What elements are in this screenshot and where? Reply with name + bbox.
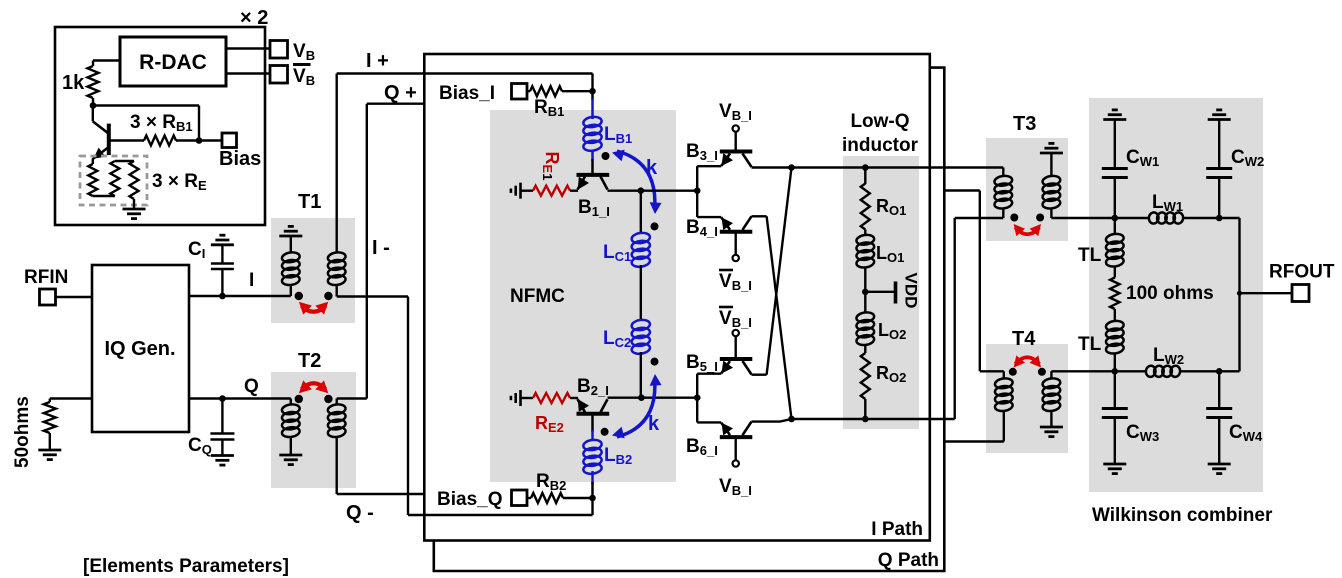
LC2 phase dot [651,358,659,366]
transistor Q1 [90,106,109,165]
pad RFIN [40,289,56,305]
T1 primary ground [279,235,302,238]
CW4 ground [1218,418,1220,465]
ground below RE [123,208,146,211]
LB2 phase dot [601,428,609,436]
VDD tap [865,291,894,293]
wire LB2 to Bias_Q node [591,471,594,484]
transistor B3_I [717,132,753,170]
svg-text:T4: T4 [1012,328,1036,350]
resistor RB2 [531,493,563,503]
T4 coupling arrow [1009,355,1045,371]
wire node down and to I- riser [591,498,593,515]
svg-text:RFIN: RFIN [24,267,68,288]
R-DAC block U1 [120,37,226,86]
Wilkinson combiner shaded box [1089,98,1263,492]
wire LO2 to RO2 [864,345,866,354]
upper TL inductor [1114,218,1116,235]
svg-text:NFMC: NFMC [510,286,565,307]
pad Bias [222,133,237,148]
capacitor CW4 [1206,407,1232,410]
T4 secondary coil [1050,371,1052,379]
inductor LB2 [583,439,603,451]
T4 phase dot left [1009,368,1017,376]
svg-text:CQ: CQ [188,435,212,457]
svg-text:B6_I: B6_I [686,436,718,458]
inductor LW2 [1145,365,1156,377]
wire 100ohms to TL lower [1114,309,1116,322]
wire 50ohms to ground [49,433,51,450]
svg-text:CI: CI [188,239,205,261]
svg-text:T2: T2 [298,350,321,372]
B6 emitter wire [697,421,721,423]
T4 primary bottom wire to Qpath box [1003,411,1005,442]
label VBbar_I below B4 [719,270,752,293]
pad VBbar [270,66,288,84]
svg-text:k: k [646,157,658,179]
resistor RE c [130,161,139,199]
T2 secondary bottom to Q- wire [336,437,338,495]
wire CQ to ground [221,440,223,456]
wire 1k to R-DAC [93,59,120,61]
LC1 phase dot [651,222,659,230]
Wilkinson top wire [1115,217,1149,219]
B4 collector wire to cross [752,215,767,217]
T4 secondary ground [1050,411,1052,428]
node cascode emitters upper [694,187,701,194]
wire LC1 stem [640,191,642,234]
wire pad to RB2 [527,497,531,499]
wire Low-Q top stem [864,168,866,185]
node Low-Q bottom [862,416,869,423]
inductor LC1 [631,232,651,244]
capacitor CW1 [1102,167,1128,170]
inductor LC2 [631,319,651,331]
T3 phase dot left [1010,214,1018,222]
wire RO1 to LO1 [864,230,866,236]
svg-text:VB_I: VB_I [719,476,752,498]
svg-text:Q -: Q - [346,502,374,524]
Low-Q inductor shaded box [843,156,919,429]
node Low-Q top [862,164,869,171]
wire B1 collector to cascode [608,189,698,191]
inductor LB1 [583,116,603,128]
transistor B4_I [717,214,753,255]
resistor RB1 [530,86,562,96]
top output rail [752,166,1004,168]
node B2 collector LC2 [638,394,645,401]
resistor RE1 [533,186,570,196]
pad RFOUT [1292,285,1309,302]
wire LB1 to B1 base [591,150,594,161]
svg-text:RB1: RB1 [534,97,564,119]
resistor 1k [88,66,99,98]
resistor RO1 [861,184,870,230]
T1 primary coil [281,251,300,263]
CW2 ground [1208,118,1231,121]
node B1 collector LC1 [638,187,645,194]
svg-text:50ohms: 50ohms [12,396,33,468]
CW4 stem [1218,371,1220,408]
resistor RO2 [861,353,870,399]
T3 transformer shaded box [986,138,1068,241]
right riser to RFOUT [1238,218,1240,371]
wire 50ohms branch [50,397,92,399]
node CW1 [1112,215,1119,222]
Wilkinson bottom wire [1115,370,1146,372]
svg-text:I +: I + [366,50,389,72]
wire node to LB1 [591,91,594,100]
wire RFIN to IQ Gen [56,296,93,298]
svg-text:B3_I: B3_I [686,141,718,163]
wire CI stem [221,269,223,296]
resistor 100ohms [1110,278,1119,310]
T2 phase dot right [324,395,332,403]
coupling arrow k upper [610,147,661,215]
svg-text:1k: 1k [62,72,85,94]
node Q [219,395,226,402]
svg-text:3 × RB1: 3 × RB1 [130,112,193,134]
node Bias_Q LB2 [589,495,596,502]
T3 primary coil [1002,168,1004,177]
transistor B2_I [573,396,609,414]
pad Bias_Q [512,490,528,506]
T1 secondary coil [327,251,346,263]
T2 secondary coil [327,403,346,415]
B5 emitter wire [697,373,721,375]
wire I+ to box [337,72,593,74]
capacitor CQ [210,432,234,435]
resistor RE2 [533,393,570,403]
B3 emitter wire [697,165,721,167]
node cascode emitters lower [694,394,701,401]
svg-text:TL: TL [1078,334,1102,355]
Q Path box [434,68,945,571]
svg-text:R-DAC: R-DAC [139,51,207,74]
svg-text:TL: TL [1078,245,1102,266]
svg-text:Wilkinson combiner: Wilkinson combiner [1092,505,1273,526]
ground below CQ [211,454,234,457]
wire RB2 to node [563,497,593,499]
wire LC1 to LC2 [640,265,642,321]
wire TL to 100ohms [1114,266,1116,278]
capacitor CW2 [1206,167,1232,170]
T2 transformer shaded box [271,372,356,488]
wire to RFOUT pad [1240,292,1293,294]
wire I- riser down [407,297,409,516]
transistor B5_I [717,337,753,378]
bottom output rail [792,418,955,420]
node CW3 [1112,368,1119,375]
resistor RE a [88,164,97,196]
svg-text:inductor: inductor [842,135,919,156]
wire RE2 to emitter [570,397,578,399]
CW3 stem [1114,371,1116,408]
svg-text:Bias_Q: Bias_Q [437,489,502,510]
svg-text:I: I [249,270,254,291]
inverted ground above CI [211,243,234,246]
label RE1 [540,152,562,181]
T4 phase dot right [1038,368,1046,376]
svg-text:3 × RE: 3 × RE [152,171,207,193]
terminal B3 base [733,125,739,131]
wire Q from IQ Gen to T2 [189,397,291,399]
label VBbar with overline [293,65,315,89]
resistor 50ohms [44,402,56,433]
bias generator outer box [55,27,265,225]
capacitor CW3 [1102,407,1128,410]
svg-text:Q Path: Q Path [878,550,939,571]
CW3 ground [1114,418,1116,465]
B4 emitter wire [697,216,721,218]
svg-text:Bias_I: Bias_I [439,83,495,104]
T3 coupling arrow [1009,220,1045,236]
CW1 stem bottom [1114,178,1116,219]
T1 coupling arrow [295,297,333,314]
wire RE bottoms [93,195,115,197]
CW2 stem top [1218,120,1220,169]
svg-text:Q: Q [244,376,259,397]
wire node to Bias branch [93,104,199,106]
svg-text:VB: VB [293,66,315,88]
svg-text:Bias: Bias [219,148,261,170]
svg-text:[Elements Parameters]: [Elements Parameters] [83,556,289,577]
wire RE c to ground [133,199,135,209]
sideways ground B2 [519,390,522,406]
svg-text:VB_I: VB_I [719,271,752,293]
CW2 stem bottom [1218,178,1220,219]
T4 transformer shaded box [986,344,1068,453]
transistor B6_I [717,419,753,460]
wire I from IQ Gen to T1 [189,295,291,297]
wire B2 base to LB2 [591,416,594,433]
resistor RE b [110,161,119,196]
dashed box around RE resistors [80,156,147,205]
capacitor CI [211,262,234,265]
wire LO1 to VDD node [864,267,866,313]
T3 secondary bottom wire [1050,208,1052,218]
T3 secondary coil [1042,175,1061,187]
lower TL inductor [1105,320,1124,332]
svg-text:I Path: I Path [871,519,923,540]
node below 1k [90,102,97,109]
svg-text:B4_I: B4_I [686,217,718,239]
terminal B6 base [733,460,739,466]
node at Bias branch [196,137,203,144]
T1 secondary top riser I+ [336,74,338,254]
svg-text:RFOUT: RFOUT [1269,262,1335,283]
wire B2 collector to cascode [608,397,698,399]
node VDD [862,289,869,296]
T2 coupling arrow [295,380,333,397]
wire pad to RB1 [527,90,530,92]
wire CI top to ground [221,245,223,264]
T2 secondary top elbow to Q+ riser [336,399,338,406]
svg-text:VB_I: VB_I [719,101,752,123]
node cross upper [788,164,795,171]
wire LC2 to B2 collector node [640,352,642,398]
pad VB [270,41,288,59]
wire RO2 to bottom rail [864,399,866,419]
transistor B1_I [573,175,609,193]
T1 phase dot right [324,292,332,300]
svg-text:VB_I: VB_I [719,308,752,330]
T3 secondary ground [1040,152,1063,155]
svg-text:IQ Gen.: IQ Gen. [104,338,175,360]
svg-text:T1: T1 [298,191,321,213]
wire R-DAC to VBbar pad [226,72,270,74]
svg-text:100 ohms: 100 ohms [1126,283,1214,304]
T4 primary coil [1003,371,1005,379]
ground below 50ohms [38,449,61,452]
T2 primary coil [290,399,292,406]
resistor 3xRB1 [144,136,176,146]
inductor LO1 [856,234,875,246]
wire Qpath box to T4 riser [944,189,980,191]
T1 secondary bottom elbow [336,285,338,297]
IQ generator block [92,265,189,432]
svg-text:k: k [648,413,660,435]
wire RB1 to Bias node [176,139,222,141]
svg-text:Low-Q: Low-Q [850,111,909,132]
LB1 phase dot [602,152,610,160]
wire RE tops [115,160,134,162]
node LW2 CW4 [1216,368,1223,375]
CW1 ground [1103,118,1126,121]
B5 collector wire to cross [752,374,767,376]
pad Bias_I [512,84,528,100]
CW1 stem top [1114,120,1116,169]
node I [219,293,226,300]
terminal B4 base [733,255,739,261]
T3 primary bottom wire to rail [1002,208,1004,218]
wire base to resistor RB1 [109,139,144,141]
node Bias_I LB1 [589,88,596,95]
svg-text:Q +: Q + [384,82,417,104]
B6 collector wire [752,420,781,422]
wire RB1 to node [562,90,593,92]
T3 phase dot right [1036,214,1044,222]
wire R-DAC to VB pad [226,47,270,49]
wire 1k bottom to node [92,98,94,106]
T1 transformer shaded box [271,218,355,323]
NFMC shaded box [490,110,676,482]
terminal B5 base [733,330,739,336]
coupling arrow k lower [610,374,661,442]
node RFOUT junction [1237,291,1242,296]
T4 secondary top wire [1051,370,1114,372]
node cross lower [788,416,795,423]
Q+ riser [366,104,368,399]
sideways ground B1 [519,183,522,199]
label VBbar_I above B5 [719,307,752,330]
node LW1 CW2 [1216,215,1223,222]
T2 primary ground [290,437,292,456]
inductor LO2 [856,311,875,323]
inductor LW1 [1148,212,1159,224]
I Path box [424,54,930,541]
svg-text:VB: VB [293,41,315,63]
wire CQ stem [221,399,223,434]
wire RE1 to emitter [570,189,578,191]
svg-text:B5_I: B5_I [686,352,718,374]
svg-text:× 2: × 2 [240,7,268,29]
svg-text:VDD: VDD [902,273,921,309]
T1 phase dot left [295,292,303,300]
svg-text:T3: T3 [1013,113,1036,135]
T2 phase dot left [295,395,303,403]
svg-text:I -: I - [372,237,390,259]
